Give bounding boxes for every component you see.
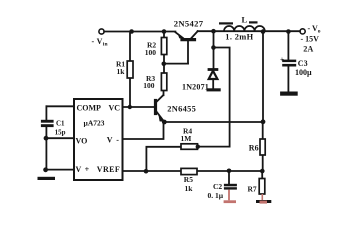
svg-text:0. 1µ: 0. 1µ (208, 191, 224, 200)
svg-text:1. 2mH: 1. 2mH (225, 32, 253, 41)
svg-text:2N6455: 2N6455 (167, 104, 196, 113)
svg-text:15p: 15p (55, 129, 66, 137)
svg-text:COMP: COMP (77, 104, 102, 113)
svg-text:V+: V+ (76, 165, 90, 174)
svg-text:L: L (242, 15, 248, 25)
svg-text:+: + (280, 55, 284, 63)
svg-text:2N5427: 2N5427 (174, 18, 204, 28)
svg-text:µA723: µA723 (84, 118, 105, 127)
svg-text:C2: C2 (213, 182, 222, 191)
svg-text:1k: 1k (117, 67, 126, 76)
svg-text:R5: R5 (184, 175, 193, 184)
svg-text:VO: VO (76, 136, 88, 145)
svg-text:1M: 1M (181, 134, 192, 143)
svg-text:- 15V: - 15V (301, 35, 320, 44)
svg-text:VC: VC (109, 104, 121, 113)
svg-text:100µ: 100µ (295, 68, 312, 77)
svg-text:V-: V- (107, 136, 119, 145)
svg-text:C1: C1 (56, 120, 65, 128)
svg-text:1k: 1k (185, 184, 194, 193)
svg-text:R6: R6 (249, 144, 259, 153)
svg-text:100: 100 (143, 81, 155, 90)
svg-text:VREF: VREF (97, 165, 120, 174)
svg-text:R7: R7 (248, 185, 257, 194)
svg-text:C3: C3 (298, 59, 308, 68)
svg-text:2A: 2A (303, 44, 313, 53)
svg-text:100: 100 (145, 48, 157, 57)
svg-text:1N2071: 1N2071 (182, 83, 209, 92)
svg-text:- Vo: - Vo (308, 24, 321, 35)
svg-text:- Vin: - Vin (92, 37, 108, 48)
